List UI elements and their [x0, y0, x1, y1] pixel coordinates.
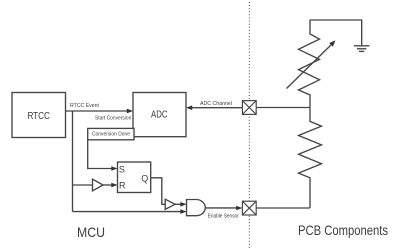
ground symbol GND — [354, 46, 370, 52]
wire pad P2 to resistor bottom — [256, 207, 310, 209]
wire buffer U5 output to AND gate — [175, 203, 182, 205]
block RTCC U1 — [12, 93, 66, 138]
wire Enable Sensor (AND output to pad P2) — [205, 207, 237, 209]
svg-text:Start Conversion: Start Conversion — [95, 115, 131, 121]
svg-text:RTCC Event: RTCC Event — [70, 103, 99, 109]
arrowhead of variable resistor arrow — [329, 40, 335, 46]
wire Q output to buffer U5 — [151, 178, 166, 205]
svg-text:R: R — [119, 181, 126, 191]
wire buffer U4 output to R — [103, 184, 112, 186]
svg-text:PCB Components: PCB Components — [298, 223, 388, 238]
arrowhead RTCC Event into ADC — [127, 109, 133, 114]
svg-text:S: S — [119, 164, 125, 174]
svg-text:Conversion Done: Conversion Done — [92, 131, 130, 137]
latch U3 (SR latch) — [118, 162, 151, 193]
svg-text:MCU: MCU — [77, 225, 105, 240]
boundary dashed line MCU/PCB — [248, 2, 250, 250]
variable resistor arrow shaft — [287, 44, 333, 89]
AND gate U6 — [187, 200, 206, 216]
wire branch from RTCC Event down — [72, 111, 74, 212]
resistor R2 (lower, fixed) with leads — [299, 108, 322, 209]
arrowhead into S input — [111, 166, 117, 171]
wire Conversion Done (ADC to S input) — [88, 140, 112, 169]
pad P1 (ADC Channel pad) — [242, 101, 256, 115]
svg-text:ADC: ADC — [151, 110, 168, 121]
wire branch to buffer U4 input — [73, 184, 93, 186]
buffer U4 (drives R input) — [93, 179, 104, 191]
svg-text:ADC Channel: ADC Channel — [200, 101, 232, 107]
wire pad P1 to resistor junction — [256, 107, 310, 109]
svg-text:RTCC: RTCC — [27, 111, 50, 122]
wire ADC Channel (pad P1 to ADC) — [192, 107, 243, 109]
wire RTCC Event (RTCC to ADC) — [66, 110, 128, 112]
arrowhead into R input — [111, 183, 117, 188]
block ADC U2 — [133, 93, 186, 137]
wire bottom run to AND gate input B — [73, 211, 182, 213]
wire top to ground — [310, 20, 362, 45]
resistor R1 (upper, variable) with leads — [299, 20, 320, 108]
label box Conversion Done — [88, 128, 134, 139]
pad P2 (Enable Sensor pad) — [242, 201, 256, 215]
arrowhead into AND input A — [180, 202, 186, 207]
svg-text:Enable Sensor: Enable Sensor — [208, 213, 239, 219]
buffer U5 (drives AND input A) — [165, 199, 175, 209]
arrowhead Enable Sensor into pad P2 — [236, 206, 242, 211]
arrowhead into AND input B — [180, 209, 186, 214]
arrowhead ADC Channel into ADC — [186, 105, 192, 110]
svg-text:Q: Q — [141, 173, 148, 183]
